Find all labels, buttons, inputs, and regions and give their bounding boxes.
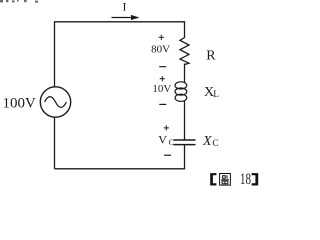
caption bracket left — [210, 173, 216, 185]
label VC — [158, 133, 174, 147]
ac source 100V — [40, 87, 70, 117]
resistor R — [180, 38, 189, 65]
svg-text:L: L — [213, 90, 219, 100]
svg-text:C: C — [212, 139, 218, 149]
plus sign above 80V — [159, 35, 164, 40]
svg-text:100V: 100V — [3, 96, 37, 112]
label XL — [204, 85, 219, 100]
svg-text:C: C — [169, 137, 175, 147]
minus sign below 10V — [159, 103, 166, 105]
svg-text:V: V — [158, 133, 167, 147]
svg-text:18: 18 — [240, 171, 251, 188]
wire right below C — [184, 145, 186, 170]
svg-text:X: X — [202, 134, 212, 149]
svg-text:10V: 10V — [152, 83, 171, 95]
wire bottom — [55, 168, 185, 170]
wire left lower — [54, 117, 56, 169]
plus sign above 10V — [160, 76, 165, 81]
minus sign below VC — [164, 154, 171, 156]
wire right between R and L — [184, 64, 186, 84]
minus sign below 80V — [159, 66, 166, 68]
capacitor XC — [174, 140, 196, 145]
label XC — [202, 134, 219, 149]
wire right upper — [184, 21, 186, 38]
svg-text:80V: 80V — [151, 44, 170, 56]
wire left upper — [54, 21, 56, 87]
caption character tu (figure) — [220, 174, 231, 186]
top-edge cropped text specks — [0, 0, 38, 3]
plus sign above VC — [164, 125, 169, 130]
current arrow I — [112, 15, 140, 20]
wire top — [55, 21, 185, 23]
inductor XL — [175, 82, 187, 102]
svg-text:R: R — [206, 48, 216, 63]
svg-text:I: I — [123, 0, 127, 14]
caption bracket right — [252, 173, 259, 185]
wire right between L and C — [184, 101, 186, 141]
